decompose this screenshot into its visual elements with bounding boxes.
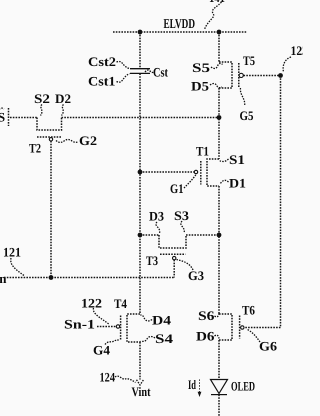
svg-text:S1: S1	[229, 152, 245, 167]
current arrow Id	[198, 380, 202, 398]
transistor T1 channel	[207, 159, 219, 186]
leader S5	[211, 63, 223, 68]
node T2 drain junction	[217, 115, 222, 120]
transistor T5 channel	[219, 62, 232, 88]
svg-text:G4: G4	[93, 343, 110, 358]
node scan-T2 gate junction	[49, 275, 54, 280]
wire OLED cathode to bottom edge	[218, 395, 220, 416]
svg-text:Vint: Vint	[132, 384, 152, 399]
transistor T2 gate bar	[37, 136, 62, 138]
node ELVDD-Cst junction	[138, 30, 143, 35]
transistor T5 gate bubble	[239, 73, 243, 77]
wire T5 drain to T1 source	[218, 88, 220, 159]
leader D4	[140, 315, 152, 321]
transistor T6 channel	[219, 314, 232, 340]
leader Cst1	[117, 74, 130, 83]
transistor T6 gate bubble	[241, 326, 244, 329]
leader D5	[210, 83, 222, 87]
svg-text:D1: D1	[229, 176, 246, 191]
wire T1 gate to storage node	[140, 171, 194, 173]
wire T6 drain to OLED anode	[218, 340, 220, 379]
wire T3 right arm	[186, 234, 219, 236]
transistor T2 gate bubble	[49, 138, 52, 141]
leader G4	[105, 340, 120, 345]
leader S2	[41, 105, 43, 116]
transistor T1 gate bubble	[194, 170, 197, 173]
leader D1	[220, 180, 229, 184]
transistor T4 channel	[127, 314, 140, 342]
leader data line tilde	[0, 108, 4, 109]
svg-text:G6: G6	[259, 339, 278, 354]
svg-text:Sn: Sn	[0, 271, 7, 286]
svg-text:T6: T6	[242, 303, 255, 318]
capacitor Cst bottom plate	[130, 72, 150, 74]
leader G5	[240, 88, 244, 106]
leader 123	[283, 57, 291, 72]
capacitor Cst top plate	[130, 68, 150, 70]
svg-text:G5: G5	[240, 108, 254, 123]
svg-text:122: 122	[81, 296, 102, 311]
wire T2 drain to node at x219	[62, 117, 220, 119]
wire emission control line from T5 gate	[244, 75, 281, 77]
svg-text:121: 121	[3, 245, 21, 260]
node emission line junction	[278, 73, 283, 78]
svg-text:ELVDD: ELVDD	[164, 16, 196, 31]
diode OLED	[211, 380, 228, 395]
leader D6	[215, 335, 220, 338]
leader Cst2	[117, 61, 130, 68]
transistor T4 gate bubble	[116, 325, 119, 328]
leader G2	[56, 140, 78, 143]
svg-text:D3: D3	[149, 209, 164, 224]
node T3 right junction	[217, 233, 222, 238]
svg-text:123: 123	[291, 43, 304, 58]
wire T1 drain down to T3 node and T6	[218, 186, 220, 314]
leader G6	[248, 330, 261, 343]
wire left vertical net (node N1 column)	[139, 32, 141, 69]
leader D3	[156, 222, 160, 233]
node T3 left junction	[138, 233, 143, 238]
wire scan line 121	[4, 277, 174, 279]
wire T4 drain down to Vint	[139, 342, 141, 380]
svg-text:Cst: Cst	[153, 65, 169, 80]
transistor T3 gate bubble	[173, 256, 176, 259]
wire T2 gate down to scan line 121	[50, 141, 52, 278]
svg-text:S: S	[0, 110, 5, 125]
svg-text:G2: G2	[79, 133, 97, 148]
leader Cst	[145, 70, 154, 72]
node ELVDD-T5 junction	[217, 30, 222, 35]
wire data terminal bar	[8, 108, 10, 126]
svg-text:T5: T5	[243, 53, 255, 68]
svg-text:S3: S3	[174, 208, 190, 223]
svg-text:D2: D2	[55, 91, 71, 106]
transistor T4 gate bar	[120, 316, 122, 341]
svg-text:Sn-1: Sn-1	[64, 317, 95, 332]
terminal Vint arrowhead	[137, 380, 144, 385]
leader for top reference numeral	[205, 2, 222, 30]
leader S1	[220, 159, 229, 162]
wire T3 gate down to scan line	[173, 260, 175, 278]
svg-text:124: 124	[100, 370, 116, 385]
leader S3	[181, 221, 184, 233]
wire T3 left arm	[140, 234, 159, 236]
leader G1	[184, 175, 196, 189]
wire scan line Sn-1 to T4 gate	[97, 326, 116, 328]
node T1 gate junction	[138, 170, 143, 175]
svg-text:D5: D5	[191, 79, 210, 94]
svg-text:T2: T2	[29, 141, 41, 156]
svg-text:D4: D4	[152, 313, 172, 328]
leader D2	[62, 105, 64, 116]
wire ELVDD rail	[113, 31, 247, 33]
transistor T1 gate bar	[200, 161, 202, 185]
svg-text:T1: T1	[196, 144, 209, 159]
svg-text:OLED: OLED	[231, 379, 255, 394]
leader 124	[115, 376, 136, 382]
svg-text:S6: S6	[198, 308, 215, 323]
leader 121	[11, 258, 24, 276]
svg-text:S2: S2	[34, 91, 50, 106]
transistor T5 gate bar	[238, 63, 240, 88]
transistor T3 gate bar	[160, 253, 186, 255]
svg-text:Cst1: Cst1	[88, 74, 116, 89]
leader G3	[177, 260, 194, 271]
svg-text:G1: G1	[170, 181, 184, 196]
wire data line from left edge to T2 source	[10, 117, 37, 119]
wire emission control rail right	[244, 76, 281, 328]
svg-text:Id: Id	[188, 377, 196, 392]
svg-text:T3: T3	[146, 253, 158, 268]
transistor T3 channel	[159, 235, 186, 248]
wire below capacitor down to T4	[139, 73, 141, 314]
svg-text:S4: S4	[155, 331, 174, 346]
transistor T6 gate bar	[239, 316, 241, 339]
svg-text:Cst2: Cst2	[88, 54, 116, 69]
svg-text:T4: T4	[114, 296, 127, 311]
leader S6	[215, 314, 220, 317]
leader 122	[93, 308, 109, 325]
svg-text:141: 141	[209, 0, 225, 5]
wire ELVDD branch to T5	[218, 32, 220, 62]
svg-text:D6: D6	[196, 329, 215, 344]
svg-text:G3: G3	[188, 268, 204, 283]
transistor T2 channel	[37, 118, 62, 131]
leader S4	[140, 336, 155, 341]
svg-text:S5: S5	[192, 60, 211, 75]
